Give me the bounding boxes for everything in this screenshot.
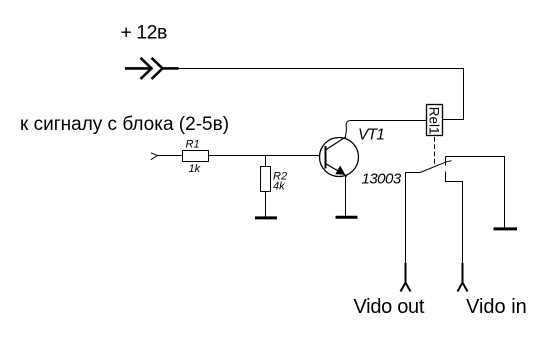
svg-text:4k: 4k [273,180,285,192]
wire emitter to ground [345,176,347,216]
svg-text:Vido out: Vido out [354,296,425,318]
ground (right) [494,227,518,230]
ground (below R2) [255,216,277,219]
input connector chevron [151,153,158,160]
switch contact to Vido in [446,172,463,265]
relay coil Rel1 [427,105,443,136]
connector Vido out [401,263,411,292]
wire R1 to transistor base [209,155,321,157]
wire rail drop to relay right lead [443,69,464,120]
wire R2 to ground [265,192,267,217]
resistor R1 [183,151,209,162]
svg-text:Rel1: Rel1 [427,107,442,135]
wire to Vido out [405,173,407,265]
svg-text:+ 12в: + 12в [121,22,167,44]
wire collector to relay [345,121,426,137]
switch contact stub (upper) [445,157,447,166]
svg-text:1k: 1k [189,163,201,175]
connector Vido in [458,263,468,292]
wire +12V rail to right [179,68,464,70]
svg-text:Vido in: Vido in [466,296,527,318]
resistor R2 [261,167,271,192]
switch lever [420,161,452,173]
wire lever pivot [406,172,421,174]
power connector arrow (+12V input) [125,58,179,79]
svg-text:R1: R1 [186,138,200,150]
transistor VT1 (NPN) [320,137,359,177]
wire input to R1 [158,155,183,157]
svg-text:к сигналу с блока (2-5в): к сигналу с блока (2-5в) [20,114,229,135]
svg-text:VT1: VT1 [358,126,384,143]
svg-text:13003: 13003 [362,170,402,187]
wire upper contact to ground [446,157,505,228]
wire junction to R2 [265,156,267,167]
dashed actuator link [434,137,436,165]
ground (emitter) [336,216,358,219]
